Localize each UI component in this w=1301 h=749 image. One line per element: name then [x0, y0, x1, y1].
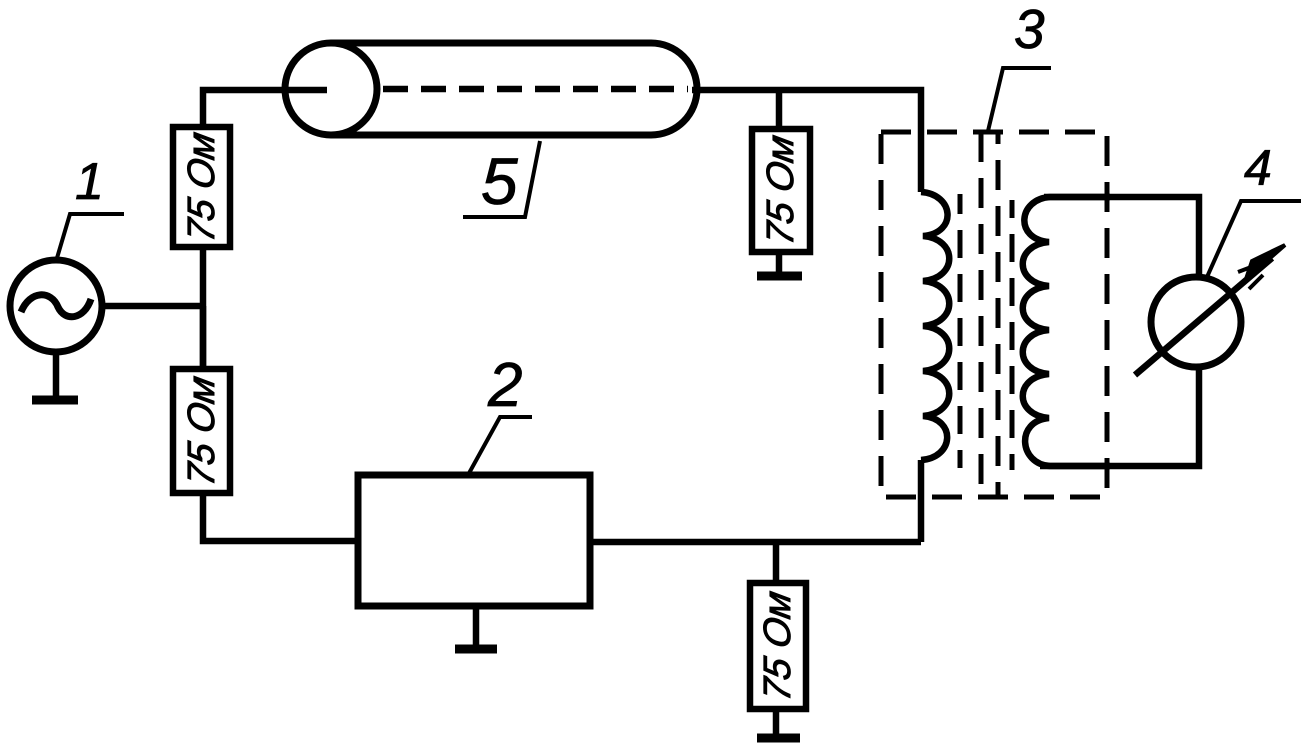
box 2 (measured two-port)	[358, 475, 590, 606]
screen dashed line (left full)	[979, 132, 984, 497]
svg-text:1: 1	[75, 153, 104, 211]
AC source G1	[10, 260, 102, 352]
svg-text:5: 5	[481, 144, 518, 218]
resistor 75 Ом (upper left)	[173, 127, 230, 247]
svg-text:2: 2	[487, 351, 522, 420]
wire coax to transformer (top right)	[692, 90, 921, 192]
ground (top right resistor)	[757, 252, 802, 276]
label 5 leader	[463, 141, 540, 217]
ground (bottom right resistor)	[757, 709, 800, 738]
ground (source)	[32, 352, 78, 400]
resistor 75 Ом (lower left)	[173, 369, 230, 493]
wire node A down to lower resistor	[200, 306, 207, 369]
wire secondary to meter (top)	[1044, 197, 1199, 278]
transformer primary coil	[921, 192, 949, 460]
label 1 leader	[57, 214, 124, 258]
label 3 leader	[988, 68, 1051, 131]
transformer shield (outer dashed box)	[881, 132, 1107, 497]
svg-text:75 Ом: 75 Ом	[180, 373, 223, 489]
label 2 leader	[468, 417, 532, 475]
wire resistor up / top-left corner	[203, 90, 327, 127]
delay line 5 (coaxial cylinder)	[285, 43, 697, 135]
wire stub to bottom-right resistor	[773, 542, 780, 583]
resistor 75 Ом (bottom right)	[750, 583, 806, 709]
core dashed line (left, partial)	[958, 194, 963, 468]
svg-text:3: 3	[1014, 0, 1045, 60]
svg-text:4: 4	[1244, 140, 1272, 196]
wire lower-left corner to box 2	[203, 493, 358, 541]
transformer secondary coil	[1023, 197, 1110, 466]
svg-text:75 Ом: 75 Ом	[756, 588, 799, 704]
wire meter to secondary (bottom)	[1040, 367, 1199, 466]
svg-text:75 Ом: 75 Ом	[759, 132, 802, 248]
wire node A up to resistor	[200, 247, 207, 369]
ground (box 2)	[455, 606, 497, 649]
wire bottom to primary coil	[918, 460, 925, 542]
wire source to node A	[102, 303, 203, 310]
resistor 75 Ом (top right)	[752, 129, 810, 252]
wire box 2 to transformer (bottom)	[590, 539, 921, 546]
meter P1 (indicator with arrow)	[1135, 245, 1285, 375]
wire stub to top-right resistor	[776, 92, 783, 129]
screen dashed line (right full)	[996, 132, 1001, 497]
svg-text:75 Ом: 75 Ом	[180, 129, 223, 245]
label 4 leader	[1207, 201, 1301, 277]
core dashed line (right, partial)	[1010, 200, 1015, 470]
